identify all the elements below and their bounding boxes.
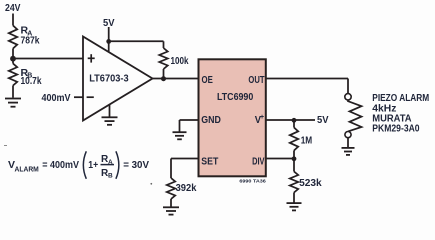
svg-text:24V: 24V — [5, 2, 21, 14]
svg-text:400mV: 400mV — [42, 92, 71, 104]
svg-text:6990 TA36: 6990 TA36 — [239, 179, 266, 184]
svg-text:ALARM: ALARM — [15, 166, 39, 173]
svg-text:LT6703-3: LT6703-3 — [89, 72, 129, 84]
svg-text:100k: 100k — [171, 55, 189, 67]
svg-text:1M: 1M — [301, 135, 313, 147]
svg-text:+: + — [260, 114, 264, 121]
svg-text:= 30V: = 30V — [123, 159, 149, 171]
svg-text:5V: 5V — [103, 17, 115, 29]
svg-text:A: A — [108, 159, 113, 166]
svg-text:392k: 392k — [176, 182, 197, 194]
svg-text:OUT: OUT — [248, 74, 265, 86]
svg-text:LTC6990: LTC6990 — [217, 91, 253, 103]
svg-text:1+: 1+ — [88, 159, 98, 171]
svg-text:523k: 523k — [299, 177, 322, 189]
svg-text:PKM29-3A0: PKM29-3A0 — [372, 123, 419, 135]
svg-text:B: B — [27, 73, 32, 80]
svg-text:SET: SET — [201, 156, 218, 168]
svg-text:A: A — [27, 30, 32, 37]
svg-text:OE: OE — [202, 74, 213, 86]
svg-text:= 400mV: = 400mV — [42, 159, 79, 171]
svg-text:B: B — [108, 173, 113, 180]
svg-text:5V: 5V — [317, 114, 329, 126]
svg-text:DIV: DIV — [252, 156, 264, 168]
svg-text:GND: GND — [201, 114, 221, 126]
